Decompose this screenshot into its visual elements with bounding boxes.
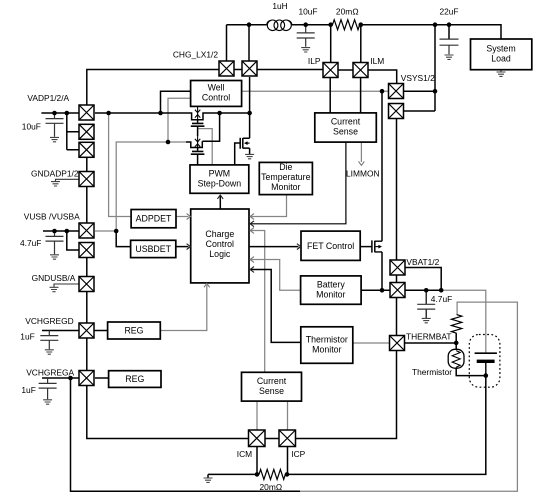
svg-text:Control: Control (206, 239, 234, 249)
svg-text:REG: REG (124, 326, 143, 336)
svg-text:10uF: 10uF (298, 7, 317, 17)
svg-text:20mΩ: 20mΩ (336, 7, 359, 17)
svg-text:Temperature: Temperature (261, 172, 310, 182)
svg-text:ICP: ICP (291, 449, 305, 459)
svg-text:1uF: 1uF (21, 385, 35, 395)
svg-text:REG: REG (125, 374, 144, 384)
svg-text:Monitor: Monitor (271, 182, 300, 192)
svg-text:ILM: ILM (370, 56, 384, 66)
svg-text:Sense: Sense (333, 127, 358, 137)
svg-text:4.7uF: 4.7uF (20, 238, 41, 248)
svg-text:PWM: PWM (209, 169, 231, 179)
svg-text:Sense: Sense (259, 386, 284, 396)
svg-text:Control: Control (202, 93, 230, 103)
svg-text:VUSB /VUSBA: VUSB /VUSBA (24, 212, 80, 222)
svg-text:LIMMON: LIMMON (346, 168, 380, 178)
svg-text:Battery: Battery (317, 279, 345, 289)
svg-text:GNDADP1/2: GNDADP1/2 (31, 168, 79, 178)
svg-text:System: System (486, 44, 515, 54)
svg-text:Monitor: Monitor (316, 289, 345, 299)
svg-text:Thermistor: Thermistor (412, 367, 452, 377)
svg-text:FET Control: FET Control (307, 241, 354, 251)
svg-text:Logic: Logic (209, 249, 231, 259)
svg-text:GNDUSB/A: GNDUSB/A (32, 273, 76, 283)
svg-text:4.7uF: 4.7uF (431, 294, 452, 304)
svg-text:VCHGREGD: VCHGREGD (25, 316, 73, 326)
svg-text:1uF: 1uF (20, 332, 34, 342)
svg-text:ILP: ILP (308, 56, 321, 66)
svg-text:VADP1/2/A: VADP1/2/A (27, 93, 69, 103)
svg-text:1uH: 1uH (272, 1, 287, 11)
svg-text:VSYS1/2: VSYS1/2 (401, 73, 435, 83)
svg-text:22uF: 22uF (439, 7, 458, 17)
svg-text:10uF: 10uF (22, 121, 41, 131)
svg-text:THERMBAT: THERMBAT (406, 332, 451, 342)
svg-text:USBDET: USBDET (135, 244, 171, 254)
svg-text:CHG_LX1/2: CHG_LX1/2 (173, 50, 218, 60)
svg-text:Current: Current (331, 117, 361, 127)
svg-text:ICM: ICM (237, 449, 252, 459)
svg-text:Die: Die (279, 162, 292, 172)
svg-text:Load: Load (491, 54, 511, 64)
svg-text:Current: Current (257, 376, 287, 386)
svg-text:Thermistor: Thermistor (306, 334, 348, 344)
svg-text:20mΩ: 20mΩ (260, 482, 283, 492)
svg-text:Charge: Charge (205, 229, 234, 239)
svg-text:Monitor: Monitor (312, 344, 341, 354)
svg-text:Well: Well (208, 83, 225, 93)
svg-text:VCHGREGA: VCHGREGA (26, 368, 74, 378)
svg-text:VBAT1/2: VBAT1/2 (406, 257, 439, 267)
svg-text:ADPDET: ADPDET (136, 214, 172, 224)
svg-text:Step-Down: Step-Down (198, 179, 242, 189)
